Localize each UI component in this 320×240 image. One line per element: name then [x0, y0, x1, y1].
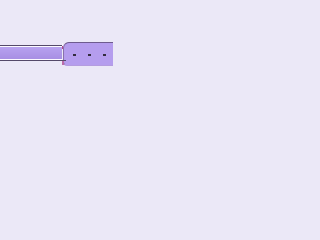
slider track white lower inner line	[0, 59, 62, 60]
pill dot 2	[88, 54, 91, 56]
pill dot 1	[73, 54, 76, 56]
slider track dark upper hairline	[0, 45, 62, 46]
slider track purple fill	[0, 47, 62, 59]
pill dot 3	[103, 54, 106, 56]
junction handle upper pink tick	[62, 46, 63, 49]
slider track dark lower hairline	[0, 60, 66, 61]
junction handle lower pink tick	[62, 61, 64, 66]
options pill (rounded rect)	[63, 42, 113, 66]
junction handle white upper tick	[62, 43, 63, 46]
slider track white upper inner line	[0, 46, 62, 47]
